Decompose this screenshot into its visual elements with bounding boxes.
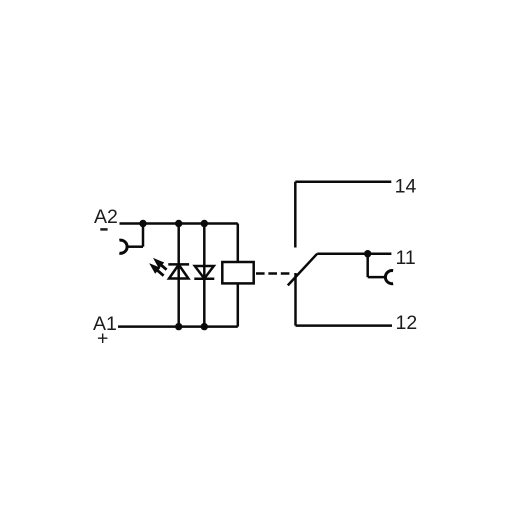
svg-text:11: 11 bbox=[396, 247, 416, 269]
wire clamp branch at 11 vertical bbox=[366, 254, 369, 277]
freewheel diode D2 triangle and cathode bar bbox=[194, 266, 214, 279]
wire terminal 14 lead vertical bbox=[294, 182, 297, 248]
wire terminal 12 lead vertical bbox=[294, 273, 297, 326]
wire clamp branch horizontal bbox=[127, 245, 143, 248]
LED D1 triangle and cathode bar bbox=[168, 264, 189, 278]
mechanical link dashed line bbox=[256, 272, 292, 275]
wire clamp branch vertical bbox=[142, 224, 145, 247]
wire terminal 12 horizontal bbox=[296, 324, 393, 327]
wire corner down to relay coil top bbox=[237, 224, 240, 263]
switch contact arm diagonal bbox=[288, 254, 317, 286]
svg-text:14: 14 bbox=[395, 175, 417, 197]
svg-text:+: + bbox=[97, 328, 108, 350]
LED D1 light arrows bbox=[151, 260, 167, 276]
wire clamp branch at 11 horizontal bbox=[368, 276, 386, 279]
wire LED branch vertical bbox=[177, 224, 180, 327]
node junction on A2 rail at LED branch bbox=[175, 220, 182, 227]
node junction on A1 rail at diode branch bbox=[201, 323, 208, 330]
wire diode branch vertical bbox=[203, 224, 206, 327]
node junction at terminal 11 bbox=[364, 250, 371, 257]
label minus bbox=[100, 228, 107, 231]
terminal clamp 11 bbox=[385, 271, 393, 284]
relay coil K1 bbox=[222, 262, 253, 283]
node junction on A1 rail at LED branch bbox=[175, 323, 182, 330]
wire terminal 14 horizontal bbox=[295, 181, 391, 184]
svg-text:12: 12 bbox=[396, 312, 418, 334]
node junction on A2 rail at clamp branch bbox=[139, 220, 146, 227]
terminal clamp A2 bbox=[119, 240, 127, 253]
node junction on A2 rail at diode branch bbox=[201, 220, 208, 227]
switch common wire to terminal 11 bbox=[317, 252, 391, 255]
wire A2 top rail bbox=[120, 222, 238, 225]
svg-text:A2: A2 bbox=[94, 206, 118, 228]
wire A1 bottom rail bbox=[118, 325, 238, 328]
wire corner up to relay coil bottom bbox=[237, 283, 240, 326]
